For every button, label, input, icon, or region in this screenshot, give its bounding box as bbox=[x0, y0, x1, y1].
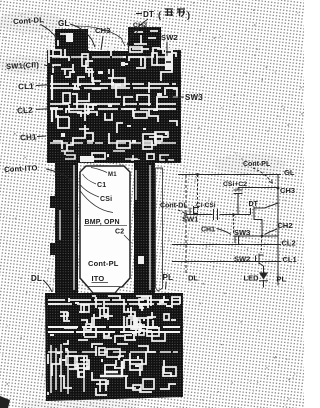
label CH1 with leader bbox=[20, 132, 46, 142]
svg-text:C2: C2 bbox=[115, 229, 124, 236]
transistor SW2 bbox=[234, 254, 264, 267]
svg-text:DL: DL bbox=[188, 274, 198, 283]
svg-text:Cont-PL: Cont-PL bbox=[243, 161, 271, 168]
transistor SW3 bbox=[234, 215, 251, 246]
data line DL vertical dashed bbox=[186, 175, 198, 283]
label CH2 with leader bbox=[133, 22, 147, 34]
svg-text:C1: C1 bbox=[97, 182, 106, 189]
label Cont-PL with dashed arrow bbox=[243, 161, 273, 184]
capacitor CSi+C2 bbox=[223, 181, 278, 215]
svg-text:ITO: ITO bbox=[92, 274, 105, 283]
pixel cell internal labels M1 C1 CSi bbox=[80, 168, 118, 213]
pixel cell labels Cont-PL ITO bbox=[88, 259, 119, 283]
svg-text:SW1: SW1 bbox=[182, 215, 198, 224]
TFT layout top block (metal maze) bbox=[47, 26, 181, 163]
label SW3 with leader bbox=[170, 93, 203, 102]
label CL2 with leader bbox=[17, 105, 47, 116]
clock line CL1 bbox=[172, 255, 297, 264]
svg-text:LED: LED bbox=[244, 274, 260, 283]
label Cont-DL with dashed arrow bbox=[160, 203, 188, 216]
svg-text:Cont-PL: Cont-PL bbox=[88, 259, 119, 268]
svg-text:SW2: SW2 bbox=[234, 255, 250, 264]
power line PL vertical bar (right) bbox=[134, 160, 155, 297]
svg-text:SW3: SW3 bbox=[234, 228, 250, 237]
transistor SW1 bbox=[182, 206, 199, 224]
svg-text:CH3: CH3 bbox=[280, 186, 295, 195]
svg-text:(: ( bbox=[158, 10, 161, 20]
data line DL vertical bar (left) bbox=[50, 160, 78, 297]
label PL (bottom of PL bar) with leader bbox=[163, 273, 174, 289]
svg-text:CH1: CH1 bbox=[201, 227, 215, 234]
svg-text:CSi: CSi bbox=[100, 196, 112, 203]
svg-text:SW3: SW3 bbox=[185, 93, 203, 102]
label Cont-DL (top left) with leader bbox=[13, 14, 59, 43]
wire: node row CH2 bbox=[234, 235, 279, 253]
svg-text:CSi+C2: CSi+C2 bbox=[223, 181, 247, 188]
label SW1(Cfl) with leader arrow bbox=[6, 59, 60, 74]
node CH3 on PL bbox=[277, 186, 296, 195]
LED D1 bbox=[244, 266, 269, 288]
svg-text:DT: DT bbox=[143, 10, 154, 19]
svg-text:CL2: CL2 bbox=[17, 106, 34, 116]
gate line GL bbox=[178, 168, 295, 177]
label SW2 with leader bbox=[161, 33, 178, 56]
clock line CL2 bbox=[172, 239, 296, 248]
svg-text:M1: M1 bbox=[108, 172, 117, 178]
svg-text:GL: GL bbox=[58, 19, 70, 28]
label DT (drive) with leader bbox=[127, 9, 190, 45]
svg-text:CH2: CH2 bbox=[133, 22, 147, 29]
svg-text:SW1(Cfl): SW1(Cfl) bbox=[6, 60, 40, 71]
svg-text:SW2: SW2 bbox=[161, 33, 178, 42]
svg-text:DL: DL bbox=[31, 274, 42, 283]
label Cont-ITO with leader arrow bbox=[4, 162, 73, 186]
wire: storage row bbox=[186, 213, 251, 216]
svg-text:PL: PL bbox=[163, 273, 174, 282]
label CH2 with leader bbox=[265, 221, 293, 235]
label DL (bottom left) with leader bbox=[31, 274, 52, 292]
label CH1 with leader bbox=[201, 227, 231, 235]
pixel electrode cell (ITO) outline bbox=[80, 166, 130, 293]
svg-text:Ci-CSi: Ci-CSi bbox=[196, 202, 216, 209]
label CH3 with leader bbox=[95, 26, 111, 50]
transistor DT bbox=[249, 201, 279, 236]
svg-text:CH2: CH2 bbox=[278, 221, 293, 230]
svg-text:): ) bbox=[187, 10, 190, 20]
svg-text:Cont-DL: Cont-DL bbox=[160, 203, 188, 210]
svg-text:CL1: CL1 bbox=[283, 255, 297, 264]
node: SW1 gate tap on GL bbox=[196, 173, 199, 212]
svg-text:GL: GL bbox=[284, 168, 295, 177]
svg-text:CH1: CH1 bbox=[20, 133, 37, 143]
svg-text:CH3: CH3 bbox=[95, 26, 111, 35]
label CL1 with leader bbox=[18, 81, 47, 92]
svg-text:CL2: CL2 bbox=[282, 239, 296, 248]
svg-text:Cont-ITO: Cont-ITO bbox=[4, 163, 38, 174]
svg-text:PL: PL bbox=[277, 275, 287, 284]
capacitor Ci-CSi (series) bbox=[196, 202, 218, 220]
label GL with leader bbox=[58, 19, 95, 47]
svg-text:BMP, OPN: BMP, OPN bbox=[85, 219, 120, 226]
pixel cell labels BMP OPN C2 bbox=[84, 219, 132, 243]
svg-text:CL1: CL1 bbox=[18, 82, 35, 92]
corner scan mark bbox=[0, 396, 10, 408]
TFT layout bottom block bbox=[45, 293, 183, 401]
power line PL vertical bbox=[277, 175, 287, 286]
neighbouring cell edge strip bbox=[156, 168, 163, 291]
